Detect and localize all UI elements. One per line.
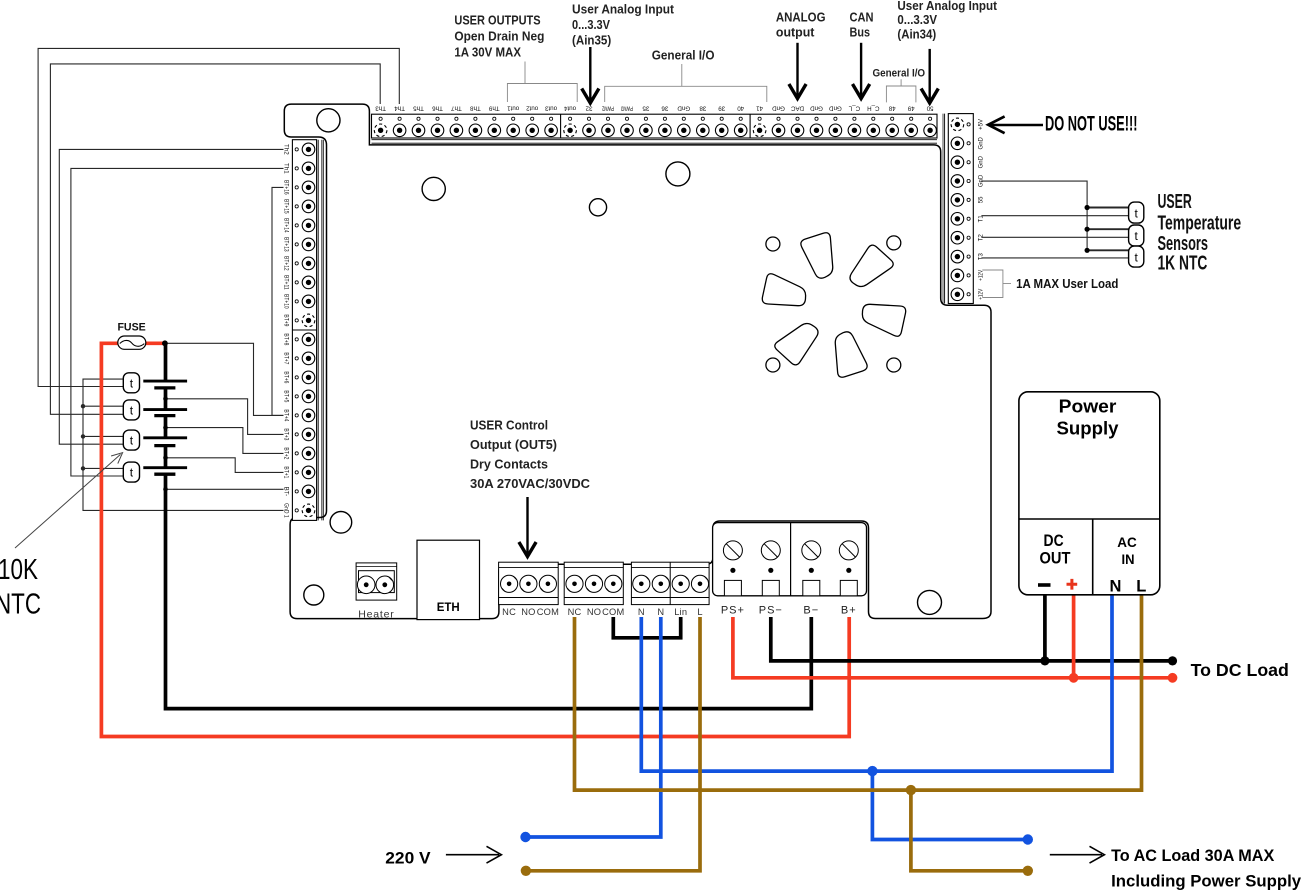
svg-text:OUT: OUT [1040, 549, 1071, 568]
wire Th4 to sensor t1 [38, 48, 399, 386]
svg-text:Th8: Th8 [470, 105, 481, 112]
temperature sensor t7 [1129, 246, 1144, 267]
ETH port [417, 540, 480, 619]
right terminal strip connector [943, 114, 985, 304]
sensor t4 ground lead [83, 467, 123, 469]
black wire battery bottom to B- [166, 489, 812, 708]
right strip pin T3 [967, 255, 970, 258]
top strip pin out3 [550, 117, 553, 120]
svg-text:out1: out1 [507, 105, 520, 112]
mounting hole H5 [330, 512, 352, 534]
svg-text:PWM2: PWM2 [602, 105, 614, 112]
left strip pin GnD 1 [295, 509, 298, 512]
top strip pin GnD [815, 117, 818, 120]
svg-text:41: 41 [756, 105, 763, 112]
brown wire L to 220V [526, 617, 700, 871]
svg-text:BT+10: BT+10 [283, 294, 290, 309]
fan cutout [755, 233, 913, 377]
svg-text:B+: B+ [841, 605, 857, 617]
svg-text:(Ain34): (Ain34) [897, 26, 936, 41]
bracket General I/O small [886, 79, 916, 102]
svg-text:Th2: Th2 [283, 144, 290, 155]
top strip pin Th8 [474, 117, 477, 120]
terminal dot AC load brown [1023, 866, 1033, 876]
terminal dot DC load + [1168, 673, 1178, 683]
svg-text:User Analog Input: User Analog Input [897, 0, 997, 13]
svg-text:output: output [776, 25, 815, 40]
arrow 220V [446, 854, 499, 856]
svg-text:36: 36 [661, 105, 668, 112]
svg-text:1A 30V MAX: 1A 30V MAX [454, 44, 521, 59]
svg-text:BT+3: BT+3 [283, 428, 290, 440]
right strip pin 55 [967, 198, 970, 201]
top strip pin Th6 [436, 117, 439, 120]
arrow DO NOT USE [989, 124, 1043, 127]
right strip pin +12V [967, 293, 970, 296]
svg-text:out4: out4 [564, 105, 577, 112]
brown wire branch to AC load [911, 790, 1028, 871]
right strip pin T1 [967, 217, 970, 220]
top strip pin 39 [720, 117, 723, 120]
svg-text:COM: COM [537, 607, 559, 617]
svg-text:AC: AC [1117, 534, 1137, 550]
svg-text:1A MAX User Load: 1A MAX User Load [1016, 276, 1118, 291]
top strip pin 38 [701, 117, 704, 120]
fan blade 2 [841, 240, 896, 290]
svg-text:0...3.3V: 0...3.3V [572, 17, 610, 32]
top strip pin 48 [891, 117, 894, 120]
common sensor ground wire to GnD [83, 379, 284, 510]
svg-text:+12V: +12V [979, 289, 985, 300]
temperature sensor t3 [123, 430, 139, 450]
svg-text:GnD: GnD [829, 105, 842, 112]
svg-text:N: N [657, 607, 664, 617]
svg-text:Th5: Th5 [413, 105, 424, 112]
svg-text:Lin: Lin [674, 607, 687, 617]
svg-text:BT+1: BT+1 [283, 466, 290, 478]
right strip pin T2 [967, 236, 970, 239]
junction brown [906, 785, 916, 795]
svg-text:Th1: Th1 [283, 163, 290, 174]
mounting hole H6 [304, 585, 324, 605]
top strip pin C_H [872, 117, 875, 120]
svg-text:Th3: Th3 [375, 105, 386, 112]
junction right sensor common [1087, 207, 1129, 209]
left strip pin BT+14 [295, 224, 298, 227]
AC input connector (N N Lin L) [631, 562, 709, 604]
svg-text:BT+5: BT+5 [283, 390, 290, 402]
relay output connector 2 (NC NO COM) [564, 562, 623, 604]
svg-text:32: 32 [585, 105, 592, 112]
svg-text:BT+13: BT+13 [283, 237, 290, 252]
fan screw hole 4 [887, 358, 901, 372]
power terminal PS− [761, 541, 780, 560]
top strip pin DAC [796, 117, 799, 120]
left strip pin BT+16 [295, 186, 298, 189]
left strip pin BT+13 [295, 243, 298, 246]
top strip pin GnD [777, 117, 780, 120]
svg-text:Open Drain Neg: Open Drain Neg [454, 29, 544, 44]
svg-text:out3: out3 [545, 105, 558, 112]
left strip pin BT+5 [295, 395, 298, 398]
terminal dot DC load - [1168, 656, 1177, 665]
svg-text:Including Power Supply: Including Power Supply [1111, 872, 1301, 891]
svg-text:USER: USER [1158, 191, 1193, 213]
bracket USER OUTPUTS [507, 62, 577, 103]
svg-text:FUSE: FUSE [117, 322, 145, 334]
terminal dot 220V brown [521, 866, 531, 876]
wire Th2 to sensor t3 [59, 149, 283, 444]
top strip pin Th7 [455, 117, 458, 120]
left strip pin BT+6 [295, 376, 298, 379]
svg-text:Th9: Th9 [488, 105, 499, 112]
top strip pin out2 [531, 117, 534, 120]
battery cell 4 [143, 466, 187, 469]
wire battery+ to BT+4 [166, 343, 284, 415]
right strip pin GnD [967, 142, 970, 145]
svg-text:To DC Load: To DC Load [1191, 660, 1289, 680]
arrow Ain35 to pin 32 [589, 47, 591, 101]
svg-text:GnD 1: GnD 1 [282, 503, 289, 518]
top strip pin GnD [682, 117, 685, 120]
left strip pin BT+10 [295, 300, 298, 303]
junction sensor common t4 [81, 466, 85, 470]
terminal dot AC load blue [1023, 834, 1033, 844]
svg-text:GnD: GnD [772, 105, 785, 112]
junction battery tap 4 [163, 487, 168, 492]
fan blade 3 [858, 290, 913, 340]
svg-text:220 V: 220 V [385, 849, 430, 867]
svg-text:T3: T3 [979, 252, 985, 260]
fan blade 6 [755, 270, 810, 320]
temperature sensor t4 [123, 462, 139, 482]
mounting hole H3 [589, 199, 606, 216]
top strip pin C_L [853, 117, 856, 120]
arrow To AC Load [1050, 854, 1102, 856]
svg-text:General I/O: General I/O [873, 68, 926, 80]
wire battery tap2 to BT+2 [166, 428, 284, 454]
svg-text:NTC: NTC [0, 588, 41, 620]
red wire PS+ to DC load [733, 617, 1173, 678]
svg-text:DO NOT USE!!!: DO NOT USE!!! [1045, 113, 1138, 136]
wire jumper BT+16 to BT+4 [272, 187, 284, 415]
left strip pin BT+3 [295, 433, 298, 436]
svg-text:BT+16: BT+16 [283, 180, 290, 195]
svg-text:BT+6: BT+6 [283, 371, 290, 383]
terminal dot 220V blue [520, 832, 530, 842]
svg-text:Sensors: Sensors [1158, 233, 1209, 255]
svg-text:PWM3: PWM3 [621, 105, 633, 112]
svg-text:DAC: DAC [790, 105, 804, 112]
wire Th3 to sensor t2 [50, 64, 380, 414]
top strip pin 40 [739, 117, 742, 120]
svg-text:30A 270VAC/30VDC: 30A 270VAC/30VDC [470, 476, 591, 491]
arrow Ain34 to pin 50 [929, 49, 931, 101]
svg-text:Power: Power [1059, 397, 1117, 417]
svg-text:Bus: Bus [850, 25, 871, 40]
fuse body [118, 336, 146, 349]
svg-text:ANALOG: ANALOG [776, 10, 826, 25]
top strip pin 50 [929, 117, 932, 120]
wire Th1 to sensor t4 [71, 168, 284, 476]
black wire PSU DC OUT - [1043, 594, 1047, 661]
battery cell 2 [143, 408, 187, 411]
left strip pin BT+9 [295, 319, 298, 322]
svg-text:BT+9: BT+9 [283, 314, 290, 326]
top strip pin 36 [663, 117, 666, 120]
svg-text:GnD: GnD [677, 105, 690, 112]
sensor t2 ground lead [83, 405, 123, 407]
junction PSU plus [1069, 673, 1079, 683]
main power connector (PS+ PS- B- B+) [713, 523, 867, 617]
temperature sensor t5 [1129, 202, 1144, 223]
svg-text:IN: IN [1122, 551, 1135, 567]
junction sensor common t3 [81, 434, 85, 438]
blue wire N1 to PSU N [641, 594, 1112, 771]
svg-text:48: 48 [888, 105, 895, 112]
svg-text:39: 39 [718, 105, 725, 112]
sensor t3 ground lead [83, 435, 123, 437]
top strip pin Th9 [493, 117, 496, 120]
svg-text:BT+4: BT+4 [283, 409, 290, 421]
top strip pin PWM3 [625, 117, 628, 120]
svg-text:Supply: Supply [1057, 419, 1119, 439]
top strip pin 35 [644, 117, 647, 120]
heater connector [356, 563, 397, 621]
svg-text:General I/O: General I/O [652, 47, 715, 62]
svg-text:BT+15: BT+15 [283, 199, 290, 214]
svg-text:BT+7: BT+7 [283, 352, 290, 364]
svg-text:0...3.3V: 0...3.3V [897, 12, 937, 27]
top strip pin PWM2 [606, 117, 609, 120]
svg-text:Dry Contacts: Dry Contacts [470, 457, 548, 472]
right strip pin GnD [967, 161, 970, 164]
arrow ANALOG output to DAC [796, 43, 798, 96]
bracket General I/O [605, 64, 767, 102]
left strip pin BT+11 [295, 281, 298, 284]
arrow CAN Bus [860, 43, 862, 96]
svg-text:(Ain35): (Ain35) [572, 32, 611, 47]
svg-text:Th6: Th6 [432, 105, 443, 112]
fan blade 4 [835, 332, 867, 377]
top strip pin Th5 [417, 117, 420, 120]
svg-text:DC: DC [1044, 531, 1064, 550]
wire GnD to right sensor commons [981, 181, 1087, 250]
power terminal PS+ [723, 541, 742, 560]
svg-text:PS+: PS+ [721, 605, 745, 617]
junction sensor common t2 [81, 404, 85, 408]
svg-text:NC: NC [568, 607, 582, 617]
black wire battery negative: battery to B- [164, 343, 168, 489]
battery cell 1 [143, 380, 187, 383]
svg-text:N: N [638, 607, 645, 617]
junction battery + node [162, 340, 168, 346]
top strip pin out4 [569, 117, 572, 120]
svg-text:User Analog Input: User Analog Input [572, 1, 675, 16]
pointer arrow 10K NTC [15, 454, 121, 548]
left strip pin BT+8 [295, 338, 298, 341]
fan screw hole 2 [887, 236, 901, 250]
right strip pin +12V [967, 274, 970, 277]
svg-text:out2: out2 [526, 105, 539, 112]
svg-text:BT+12: BT+12 [283, 256, 290, 271]
board outline [284, 104, 991, 619]
fan blade 1 [801, 233, 833, 278]
top strip pin out1 [512, 117, 515, 120]
svg-text:USER Control: USER Control [470, 418, 548, 433]
wire battery tap1 to BT+3 [166, 399, 284, 435]
junction right sensor common [1087, 228, 1129, 230]
svg-text:35: 35 [642, 105, 649, 112]
wire T2 to sensor [981, 236, 1128, 238]
wire battery tap3 to BT+1 [166, 458, 284, 473]
svg-text:To AC Load 30A MAX: To AC Load 30A MAX [1111, 846, 1275, 865]
top strip pin GnD [834, 117, 837, 120]
power supply unit [1019, 392, 1160, 596]
svg-text:COM: COM [602, 607, 624, 617]
PSU minus symbol [1038, 583, 1051, 587]
fan screw hole 3 [766, 358, 780, 372]
temperature sensor t2 [123, 400, 139, 420]
right strip pin GnD [967, 179, 970, 182]
wire T1 to sensor [981, 215, 1128, 217]
svg-text:10K: 10K [0, 554, 38, 586]
arrow OUT5 [526, 497, 528, 554]
svg-text:ETH: ETH [437, 602, 460, 614]
svg-text:BT+11: BT+11 [283, 275, 290, 290]
blue wire N2 to 220V [526, 617, 661, 837]
svg-text:BT+14: BT+14 [283, 218, 290, 233]
junction blue [867, 766, 877, 776]
blue wire branch to AC load [872, 771, 1027, 839]
svg-text:GnD: GnD [979, 155, 985, 168]
svg-text:BT-: BT- [283, 487, 290, 497]
black wire PS- to DC load [771, 617, 1173, 661]
battery cell 3 [143, 436, 187, 439]
mounting hole H7 [918, 590, 942, 614]
svg-text:Th4: Th4 [394, 105, 405, 112]
power terminal B− [802, 541, 821, 560]
top terminal strip connector [372, 105, 938, 144]
svg-text:+12V: +12V [979, 270, 985, 281]
left strip pin BT+7 [295, 357, 298, 360]
left strip pin BT+12 [295, 262, 298, 265]
svg-text:Output (OUT5): Output (OUT5) [470, 437, 557, 452]
svg-text:USER OUTPUTS: USER OUTPUTS [454, 13, 540, 28]
mounting hole H2 [422, 177, 445, 200]
svg-text:55: 55 [979, 196, 985, 203]
red wire battery positive: fuse to B+ [101, 343, 849, 736]
fan blade 5 [772, 319, 827, 369]
wire T3 to sensor [981, 257, 1128, 259]
brown wire NC2 to PSU L [575, 594, 1142, 790]
temperature sensor t6 [1129, 225, 1144, 246]
svg-text:B−: B− [803, 605, 819, 617]
power terminal B+ [839, 541, 858, 560]
junction battery tap 1 [163, 397, 168, 402]
fan screw hole 1 [766, 237, 780, 251]
mounting hole H4 [666, 162, 690, 186]
top strip pin Th3 [379, 117, 382, 120]
black wire COM2 to Lin [613, 617, 680, 638]
junction battery tap 3 [163, 456, 168, 461]
svg-text:49: 49 [907, 105, 914, 112]
svg-text:PS−: PS− [759, 605, 783, 617]
left strip pin BT- [295, 490, 298, 493]
svg-text:Th7: Th7 [451, 105, 462, 112]
left strip pin Th2 [295, 148, 298, 151]
svg-text:+5V: +5V [979, 119, 985, 130]
svg-text:C_H: C_H [867, 105, 879, 112]
temperature sensor t1 [123, 373, 139, 393]
PSU plus symbol [1067, 579, 1078, 590]
svg-text:L: L [1136, 578, 1146, 596]
svg-text:N: N [1109, 578, 1121, 596]
junction right sensor common [1087, 249, 1129, 251]
wire battery- to BT- [166, 488, 284, 490]
svg-text:1K NTC: 1K NTC [1158, 253, 1208, 275]
relay output connector OUT5 (NC NO COM) [499, 562, 559, 604]
svg-text:Heater: Heater [358, 609, 394, 621]
left terminal strip connector [282, 140, 323, 521]
svg-text:BT+8: BT+8 [283, 333, 290, 345]
left strip pin BT+15 [295, 205, 298, 208]
top strip pin 32 [587, 117, 590, 120]
red wire PSU DC OUT + [1072, 594, 1076, 678]
top strip pin Th4 [398, 117, 401, 120]
svg-text:BT+2: BT+2 [283, 447, 290, 459]
svg-text:GnD: GnD [810, 105, 823, 112]
svg-text:NO: NO [521, 607, 535, 617]
left strip pin BT+4 [295, 414, 298, 417]
top strip pin 41 [758, 117, 761, 120]
left strip pin BT+2 [295, 452, 298, 455]
bracket 1A MAX User Load [982, 270, 1011, 298]
svg-text:40: 40 [737, 105, 744, 112]
svg-text:NC: NC [502, 607, 516, 617]
left strip pin BT+1 [295, 471, 298, 474]
junction PSU minus [1040, 656, 1049, 665]
svg-text:L: L [697, 607, 702, 617]
svg-text:NO: NO [587, 607, 601, 617]
junction battery tap 2 [163, 425, 168, 430]
svg-text:GnD: GnD [979, 136, 985, 149]
svg-text:38: 38 [699, 105, 706, 112]
right strip pin +5V [967, 123, 970, 126]
top strip pin 49 [910, 117, 913, 120]
svg-text:CAN: CAN [850, 10, 874, 25]
mounting hole H1 [317, 109, 340, 132]
left strip pin Th1 [295, 167, 298, 170]
svg-text:C_L: C_L [848, 105, 860, 112]
svg-text:Temperature: Temperature [1158, 212, 1242, 234]
